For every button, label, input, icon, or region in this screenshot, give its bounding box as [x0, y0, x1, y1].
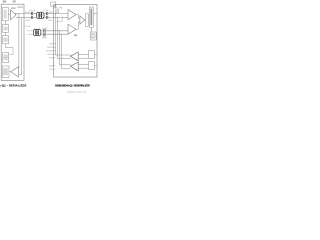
wire output block down [90, 27, 92, 32]
svg-text:RIN-: RIN- [49, 20, 53, 22]
op-amp input buffer B1 [68, 10, 76, 20]
serializer inner block: PLL [3, 7, 9, 21]
op-amp back driver B5 [70, 62, 78, 71]
termination resistor R1 [57, 9, 59, 13]
op-amp driver A1 [10, 10, 16, 20]
back channel tap wire 2 [19, 17, 22, 74]
back channel wire v2 [58, 17, 71, 58]
svg-text:GPIO0: GPIO0 [47, 54, 53, 56]
small text smudge below B2 [74, 34, 77, 36]
svg-text:Copyright © 2016, TI Inc: Copyright © 2016, TI Inc [67, 91, 87, 94]
serializer inner block: registers [3, 53, 9, 63]
op-amp recovery B3 [80, 16, 85, 24]
wire PLL to driver [8, 14, 10, 16]
wire F2 to pin [95, 65, 98, 67]
wire DOUT+ [15, 12, 31, 14]
capacitor C1 [31, 12, 32, 19]
control box F1 [89, 51, 95, 59]
cropped note icon top-center [51, 2, 57, 9]
wire B2 to B3 [76, 22, 80, 29]
common mode filter marks [56, 20, 62, 22]
back channel wire v4 [62, 34, 71, 69]
wire control down-right [6, 44, 14, 48]
wire cap to twisted pair row1 [33, 12, 37, 14]
wire DOUT- [16, 16, 32, 18]
wire B1 to B3 [76, 15, 80, 19]
svg-text:4.7 µF: 4.7 µF [25, 26, 31, 28]
svg-text:RIN1-: RIN1- [42, 37, 47, 39]
serializer U1 block outline [1, 4, 24, 80]
serializer inner block: timing [3, 25, 9, 33]
wire twisted pair to cap row1 [44, 12, 46, 14]
wire PLL to timing [5, 21, 7, 25]
pin labels left of deserializer [46, 43, 53, 71]
op-amp input buffer B2 [68, 24, 76, 34]
op-amp back driver B4 [70, 52, 78, 61]
back channel tap wire 1 [18, 13, 20, 68]
svg-text:SCL: SCL [49, 69, 53, 71]
op-amp back channel receiver A2 [11, 67, 19, 77]
wire termination stubs [55, 10, 57, 14]
back channel wire v1 [56, 13, 71, 55]
wire A2 to I2C block [9, 71, 11, 73]
twisted pair cable row1 [37, 12, 45, 19]
svg-text:913A-Q1 - SERIALIZER: 913A-Q1 - SERIALIZER [0, 83, 26, 87]
svg-text:MODE: MODE [47, 47, 53, 49]
deserializer U2 block outline [54, 4, 97, 77]
svg-text:RIN+ RIN-: RIN+ RIN- [54, 8, 63, 10]
control box F2 [89, 62, 95, 70]
pin stubs deserializer left [53, 44, 55, 69]
vertical text in output block [91, 9, 93, 26]
serializer inner block: I2C [2, 66, 9, 77]
svg-text:DS90UB914A-Q1 - DESERIALIZER: DS90UB914A-Q1 - DESERIALIZER [55, 84, 90, 88]
deserializer parallel output block [89, 7, 93, 27]
label above driver [11, 7, 16, 8]
oscillator block [90, 32, 96, 40]
svg-text:BISTEN: BISTEN [46, 50, 53, 52]
twisted pair cable row2 [33, 29, 41, 36]
oscillator divider line [90, 35, 96, 37]
wire outputs to pins [93, 12, 97, 14]
serializer inner block: control [3, 36, 9, 44]
wire timing to control [5, 32, 7, 35]
back channel wire v3 [60, 31, 71, 65]
wire dashed row2 left [27, 31, 33, 34]
wire cap to deserializer row1 [48, 12, 68, 14]
deserializer latch block [86, 14, 89, 27]
smudge text inside PLL block [4, 10, 7, 19]
wire B5 to control box [78, 63, 88, 65]
wire F1 to pin [95, 54, 98, 56]
node taps deserializer [55, 13, 62, 35]
wire cap to deserializer row2 [45, 30, 68, 32]
wire B3 to latch [84, 19, 87, 21]
cropped header text top-left [3, 0, 16, 2]
wire twisted pair to cap row2 [41, 30, 44, 32]
capacitor C3 [44, 29, 45, 37]
svg-text:DOUT-: DOUT- [25, 20, 31, 22]
capacitor C2 [47, 12, 48, 19]
wire B4 to control box [78, 53, 88, 55]
